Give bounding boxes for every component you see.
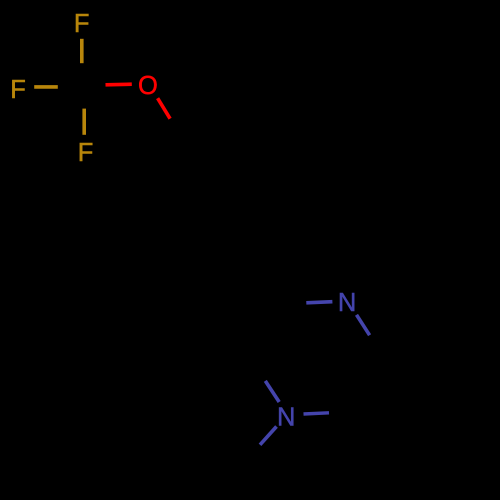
bond N1-C2 blue half <box>306 302 332 303</box>
bond F2-C7 gold half <box>34 85 58 89</box>
bond Car5-Car6 (carbon, black on black) <box>151 197 186 252</box>
bond N2-C5 blue half <box>304 413 330 414</box>
bond C7-O4 red half <box>106 82 132 86</box>
bond Car4-Car5 (carbon, black on black) <box>186 249 251 251</box>
bond N1-C6 blue half <box>357 315 370 335</box>
svg-text:F: F <box>10 76 26 104</box>
svg-text:F: F <box>78 139 94 167</box>
bond O4-Car1 red half <box>158 98 171 119</box>
bond F3-C7 gold half <box>82 109 86 135</box>
bond Car1-Car2 (carbon, black on black) <box>182 137 247 140</box>
bond Car4-C2pip (carbon, black on black) <box>251 249 282 303</box>
svg-text:O: O <box>138 72 158 100</box>
bond N2-C3 blue half <box>265 381 279 402</box>
svg-text:N: N <box>338 289 356 317</box>
svg-text:N: N <box>277 403 295 431</box>
svg-text:F: F <box>74 10 90 38</box>
bond Car3-Car4 (carbon, black on black) <box>251 192 282 249</box>
bond Car6-Car1 (carbon, black on black) <box>151 140 182 197</box>
bond N2-CH3 blue half <box>260 427 277 445</box>
bond F1-C7 gold half <box>80 39 84 63</box>
bond Car2-Car3 (carbon, black on black) <box>247 137 282 192</box>
